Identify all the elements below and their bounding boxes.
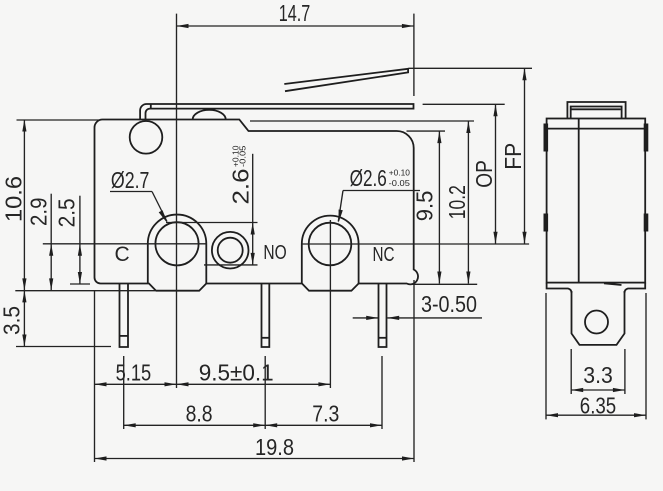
side view lower right clip <box>644 214 648 231</box>
svg-text:3.3: 3.3 <box>583 362 613 388</box>
svg-text:2.6: 2.6 <box>228 169 254 205</box>
svg-text:10.6: 10.6 <box>1 176 27 222</box>
NO hole outer ring <box>212 232 249 269</box>
terminal NC tower <box>302 216 359 284</box>
side view body <box>547 119 646 283</box>
ext line pin bottom (for 3.5) <box>16 346 111 348</box>
dim line FP <box>524 68 526 244</box>
dim line 10.6 / 3.5 column <box>23 120 25 347</box>
side view upper right clip <box>644 124 648 151</box>
ext line pin NO center <box>264 356 266 429</box>
side view terminal tab <box>572 291 625 345</box>
hinge lever inner bend <box>146 109 151 121</box>
side view bottom shell left <box>547 283 572 293</box>
side view: ext lines for 3.3 <box>570 349 572 394</box>
arrows 2.5 <box>78 244 82 256</box>
leader 3-0.50 underline <box>387 317 482 319</box>
ext line body left bottom <box>94 290 96 462</box>
pin NC <box>379 284 387 347</box>
horizontal hole center line left <box>43 243 207 245</box>
side view: dim line 6.35 <box>546 414 646 416</box>
svg-text:10.2: 10.2 <box>444 185 470 219</box>
svg-text:3.5: 3.5 <box>0 306 25 335</box>
arrows 3-0.50 <box>366 316 378 320</box>
arrows 9.5 right <box>437 131 441 143</box>
ext line pin C center <box>123 356 125 429</box>
side view upper left clip <box>544 124 548 151</box>
side view cover seam <box>547 128 646 130</box>
svg-text:14.7: 14.7 <box>279 0 311 26</box>
centerline of hole NC / ext for 9.5+-0.1 <box>329 220 331 388</box>
lever actuated (slanted) position <box>284 69 408 91</box>
ext line body right bottom <box>413 280 415 462</box>
ext line top for 10.2 <box>250 120 474 122</box>
dim line 2.5 <box>79 196 81 284</box>
NO hole inner ring <box>218 238 243 263</box>
svg-text:C: C <box>115 243 130 266</box>
ext line top for 9.5 right dim <box>407 130 446 132</box>
lever pivot hole <box>130 121 163 154</box>
side view: dim line 3.3 <box>571 389 625 391</box>
terminal C tower <box>148 215 207 284</box>
arrows 3.3 <box>571 388 583 392</box>
svg-text:5.15: 5.15 <box>116 360 152 386</box>
svg-text:9.5±0.1: 9.5±0.1 <box>199 360 274 386</box>
svg-text:Ø2.6: Ø2.6 <box>350 165 387 191</box>
arrows FP <box>522 68 526 80</box>
leader diagonal of dia 2.7 <box>152 192 167 222</box>
arrows 10.6 <box>22 120 26 132</box>
arrows 6.35 <box>546 413 558 417</box>
arrows 5.15 <box>95 382 107 386</box>
pin C notch <box>120 335 129 337</box>
arrows 8.8 <box>124 423 136 427</box>
ext line body bottom left (for 2.5) <box>70 283 90 285</box>
terminal NC hole <box>309 223 352 266</box>
arrows 2.6 <box>251 223 255 235</box>
arrows 19.8 <box>95 456 107 460</box>
arrows OP <box>493 104 497 116</box>
right extension line of 14.7 <box>413 14 415 96</box>
ext line pin NC center <box>381 356 383 429</box>
dim line 10.2 <box>467 121 469 284</box>
ext line top of 2.6 dim <box>166 222 258 224</box>
svg-text:2.9: 2.9 <box>26 198 52 227</box>
svg-text:NO: NO <box>263 242 286 264</box>
arrows 14.7 <box>177 24 189 28</box>
plunger dome on body top <box>193 110 226 120</box>
ext line OP <box>423 103 505 105</box>
switch body outline (front view) <box>95 120 419 291</box>
leader underline of dia 2.6 <box>343 190 420 192</box>
side view button inner <box>571 107 622 119</box>
dim line row 5.15 / 9.5+-0.1 <box>95 383 331 385</box>
pin NO <box>262 284 270 347</box>
leader 3-0.50 left arrow line <box>353 317 379 319</box>
dim line 2.6 <box>252 154 254 265</box>
svg-text:2.5: 2.5 <box>53 198 79 227</box>
svg-text:7.3: 7.3 <box>312 401 339 427</box>
lever joint tick <box>150 104 152 109</box>
side view button outer <box>567 102 625 119</box>
terminal C hole <box>155 222 198 265</box>
side view internal parting line <box>578 119 580 283</box>
pin NC notch <box>379 337 387 339</box>
arrows 3.5 <box>22 290 26 302</box>
dim line 19.8 <box>95 458 415 460</box>
svg-text:FP: FP <box>500 143 526 170</box>
side view tab bend mark <box>604 283 622 285</box>
svg-text:6.35: 6.35 <box>580 393 616 419</box>
pin NO notch <box>262 337 270 339</box>
arrows 10.2 <box>466 121 470 133</box>
arrow leader dia2.6 <box>339 210 343 223</box>
svg-text:9.5: 9.5 <box>412 191 438 222</box>
svg-text:NC: NC <box>373 244 395 266</box>
arrows 9.5+-0.1 <box>177 382 189 386</box>
leader underline of dia 2.7 <box>110 191 152 193</box>
side view button inner line <box>572 108 621 110</box>
dim line 2.9 <box>50 194 52 291</box>
svg-text:+0.10: +0.10 <box>389 167 410 177</box>
ext line protrusion bottom (for 10.6 / 2.9) <box>15 290 155 292</box>
svg-text:3-0.50: 3-0.50 <box>421 291 477 317</box>
arrows 7.3 <box>265 423 277 427</box>
dim line row 8.8 / 7.3 <box>124 424 382 426</box>
dim line 14.7 <box>177 25 414 27</box>
svg-text:-0.05: -0.05 <box>389 178 410 188</box>
svg-text:-0.05: -0.05 <box>238 145 248 167</box>
pin C <box>120 284 129 347</box>
side view: ext lines for 6.35 <box>545 293 547 419</box>
ext line FP (lever free tip) <box>409 67 533 69</box>
horizontal hole center line right <box>302 243 529 245</box>
leader diagonal of dia 2.6 <box>338 191 343 222</box>
centerline of hole C / ext line for 14.7 and 5.15 <box>176 14 178 388</box>
ext line body bottom right (for 9.5 / 10.2) <box>410 283 477 285</box>
svg-text:19.8: 19.8 <box>255 434 294 460</box>
side view tab hole <box>585 311 608 334</box>
dim line 9.5 right <box>438 131 440 283</box>
top extension line for 10.6 <box>17 119 100 121</box>
arrow leader dia2.7 <box>159 210 167 223</box>
ext line bottom of 2.6 dim <box>204 264 258 266</box>
svg-text:8.8: 8.8 <box>186 401 213 427</box>
svg-text:Ø2.7: Ø2.7 <box>111 167 149 193</box>
side view bottom shell right <box>625 283 646 293</box>
hinge lever horizontal arm outer bend <box>140 104 413 120</box>
side view lower left clip <box>544 214 548 231</box>
svg-text:OP: OP <box>471 160 497 188</box>
dim line OP <box>495 104 497 244</box>
arrows 2.9 <box>49 244 53 256</box>
side view <box>547 102 646 345</box>
